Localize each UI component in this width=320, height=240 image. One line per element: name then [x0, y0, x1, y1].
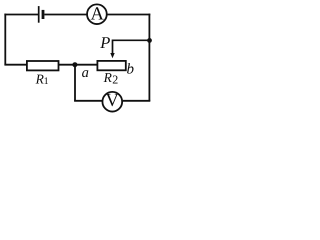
wire: bottom from middle vertical to voltmeter	[74, 100, 102, 102]
svg-text:R: R	[103, 70, 113, 85]
resistor R1	[27, 61, 59, 70]
svg-text:1: 1	[44, 76, 49, 87]
wire: left wire to R1 left terminal	[4, 64, 27, 66]
svg-text:b: b	[127, 61, 135, 77]
svg-text:P: P	[99, 33, 110, 52]
svg-text:2: 2	[112, 73, 118, 87]
voltmeter U=V	[102, 91, 122, 112]
svg-text:A: A	[91, 4, 105, 24]
svg-text:V: V	[106, 91, 120, 111]
svg-text:a: a	[82, 65, 89, 81]
ammeter U=A	[87, 4, 107, 24]
wire: battery to ammeter	[44, 14, 87, 16]
wire: voltmeter to bottom-right corner	[123, 100, 151, 102]
node B (junction slider tap / right wire)	[147, 38, 152, 43]
slider arrow of rheostat	[110, 53, 114, 58]
wire: right vertical side	[148, 14, 150, 101]
wire: left vertical side	[4, 14, 6, 65]
wire: slider tap horizontal from right wire to slider	[113, 40, 151, 54]
wire: middle vertical from node down to bottom wire	[74, 64, 76, 101]
battery	[39, 6, 43, 23]
wire: top-left horizontal from left corner to battery	[4, 14, 38, 16]
node A (junction R1/R2/voltmeter branch)	[72, 62, 77, 67]
wire: ammeter to top-right corner	[107, 14, 150, 16]
wire: R1 right terminal to R2 left terminal through node	[58, 64, 97, 66]
rheostat R2 box	[97, 61, 125, 70]
